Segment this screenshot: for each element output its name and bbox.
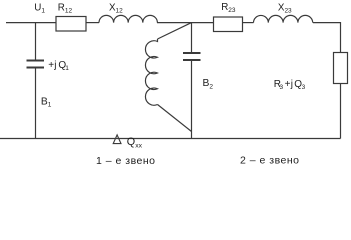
svg-text:R12: R12 bbox=[58, 2, 73, 14]
svg-text:X12: X12 bbox=[109, 2, 123, 14]
svg-text:B2: B2 bbox=[203, 78, 214, 90]
svg-text:X23: X23 bbox=[278, 2, 292, 14]
svg-text:1 – е звено: 1 – е звено bbox=[96, 155, 156, 167]
svg-text:B1: B1 bbox=[41, 96, 52, 108]
svg-text:+jQ1: +jQ1 bbox=[48, 60, 69, 72]
svg-text:U1: U1 bbox=[34, 3, 45, 15]
svg-text:R23: R23 bbox=[221, 2, 236, 14]
svg-text:R3+jQ3: R3+jQ3 bbox=[274, 79, 306, 91]
svg-text:2 – е звено: 2 – е звено bbox=[240, 155, 300, 167]
